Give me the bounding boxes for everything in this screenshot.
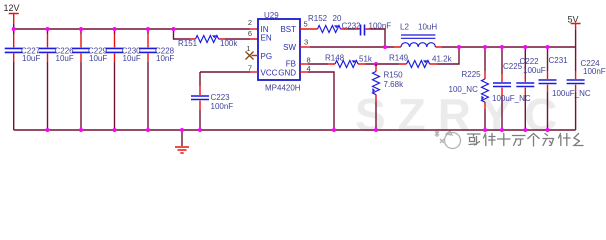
junction bus at C228 — [146, 128, 150, 132]
junction bus at C225 — [500, 128, 504, 132]
wire EN branch — [174, 29, 191, 39]
svg-text:5V: 5V — [568, 14, 579, 24]
svg-text:SW: SW — [283, 43, 296, 52]
resistor R152 — [300, 14, 347, 33]
wire R150 to bus — [375, 102, 377, 130]
svg-text:7: 7 — [248, 64, 252, 73]
junction bus at pin 4 — [332, 128, 336, 132]
svg-text:R225: R225 — [462, 70, 482, 79]
junction bus at C223 — [198, 128, 202, 132]
svg-text:R151: R151 — [178, 39, 198, 48]
capacitor C224 — [567, 47, 606, 130]
wire 12V rail — [14, 28, 250, 30]
watermark logo — [435, 130, 461, 149]
svg-text:6: 6 — [248, 29, 252, 38]
wire BST to C232 — [347, 28, 356, 30]
svg-text:10uF: 10uF — [123, 54, 141, 63]
wire VCC pin 7 — [200, 71, 258, 73]
svg-text:C222: C222 — [520, 57, 540, 66]
junction 12V rail at C228 — [146, 27, 150, 31]
svg-text:C231: C231 — [549, 56, 569, 65]
wire GND pin 4 — [300, 72, 334, 130]
wire ground bus — [14, 129, 576, 131]
resistor R225 — [449, 47, 489, 130]
resistor R150 — [372, 64, 404, 102]
junction 12V rail at R151 — [172, 27, 176, 31]
svg-text:100uF: 100uF — [523, 66, 546, 75]
ground symbol — [175, 130, 189, 153]
svg-text:C232: C232 — [342, 21, 362, 30]
capacitor C223 — [191, 72, 233, 130]
svg-text:100nF: 100nF — [211, 102, 234, 111]
junction rail at C222 — [523, 45, 527, 49]
svg-text:10nF: 10nF — [156, 54, 174, 63]
capacitor C226 — [39, 29, 75, 130]
junction rail at R225 — [483, 45, 487, 49]
svg-text:10uH: 10uH — [418, 22, 437, 31]
capacitor C227 — [5, 29, 41, 130]
resistor R148 — [325, 54, 373, 68]
svg-text:L2: L2 — [400, 22, 409, 31]
junction bus at C229 — [79, 128, 83, 132]
wire IN pin stub — [250, 28, 258, 30]
svg-text:100_NC: 100_NC — [449, 85, 479, 94]
watermark text 硬件十万个为什么 — [468, 134, 584, 147]
svg-text:FB: FB — [286, 60, 296, 69]
wire 12V feed — [13, 24, 15, 29]
svg-text:R152: R152 — [308, 14, 328, 23]
no-connect X on pin 1 — [246, 52, 254, 60]
capacitor C229 — [72, 29, 108, 130]
junction SW/C232 — [383, 45, 387, 49]
capacitor C222 — [516, 47, 545, 130]
svg-text:EN: EN — [261, 34, 272, 43]
svg-text:100nF: 100nF — [583, 67, 606, 76]
svg-text:R150: R150 — [384, 71, 404, 80]
wire R149 to 5V rail — [437, 47, 459, 64]
svg-text:R149: R149 — [389, 54, 409, 63]
wire 5V output rail — [442, 46, 576, 48]
svg-text:12V: 12V — [4, 3, 20, 13]
svg-text:10uF: 10uF — [56, 54, 74, 63]
junction bus at C230 — [113, 128, 117, 132]
junction bus at R225 — [483, 128, 487, 132]
capacitor C228 — [139, 29, 175, 130]
svg-text:PG: PG — [261, 52, 273, 61]
capacitor C231 — [539, 47, 591, 130]
wire FB pin 8 — [300, 63, 328, 65]
junction bus at ground — [180, 128, 184, 132]
capacitor C232 — [342, 21, 392, 35]
pin PG stub — [252, 55, 259, 57]
wire node A — [365, 63, 399, 65]
svg-text:R148: R148 — [325, 54, 345, 63]
svg-text:100uF_NC: 100uF_NC — [552, 89, 591, 98]
junction node A — [374, 62, 378, 66]
junction bus at C231 — [546, 128, 550, 132]
svg-text:51k: 51k — [359, 55, 373, 64]
svg-text:3: 3 — [304, 38, 308, 47]
svg-text:2: 2 — [248, 18, 252, 27]
svg-text:1: 1 — [246, 44, 250, 53]
inductor L2 — [394, 22, 442, 47]
junction 12V rail at C226 — [46, 27, 50, 31]
junction 12V rail at C230 — [113, 27, 117, 31]
svg-text:SZRYC: SZRYC — [355, 89, 569, 141]
wire C232 to SW — [371, 29, 385, 47]
net 5V power symbol — [571, 24, 581, 48]
junction rail at C231 — [546, 45, 550, 49]
op-amp U29 regulator MP4420H — [258, 11, 301, 93]
svg-text:BST: BST — [280, 25, 296, 34]
junction 12V rail at C227 — [12, 27, 16, 31]
junction rail at C225 — [500, 45, 504, 49]
junction bus at C222 — [523, 128, 527, 132]
svg-text:C223: C223 — [211, 93, 231, 102]
junction R149 tap — [457, 45, 461, 49]
svg-text:VCC: VCC — [261, 69, 278, 78]
resistor R149 — [389, 54, 453, 68]
svg-text:10uF: 10uF — [89, 54, 107, 63]
wire SW pin 3 — [300, 46, 394, 48]
capacitor C225 — [492, 47, 531, 130]
junction bus at R150 — [374, 128, 378, 132]
svg-text:41.2k: 41.2k — [432, 55, 453, 64]
svg-text:100k: 100k — [220, 39, 238, 48]
svg-text:U29: U29 — [264, 11, 279, 20]
net 12V power symbol — [9, 14, 19, 25]
svg-text:GND: GND — [278, 69, 296, 78]
svg-text:7.68k: 7.68k — [384, 80, 405, 89]
junction bus at C226 — [46, 128, 50, 132]
svg-text:10uF: 10uF — [22, 54, 40, 63]
svg-text:MP4420H: MP4420H — [265, 84, 301, 93]
resistor R151 — [178, 35, 258, 48]
junction 12V rail at C229 — [79, 27, 83, 31]
capacitor C230 — [106, 29, 142, 130]
